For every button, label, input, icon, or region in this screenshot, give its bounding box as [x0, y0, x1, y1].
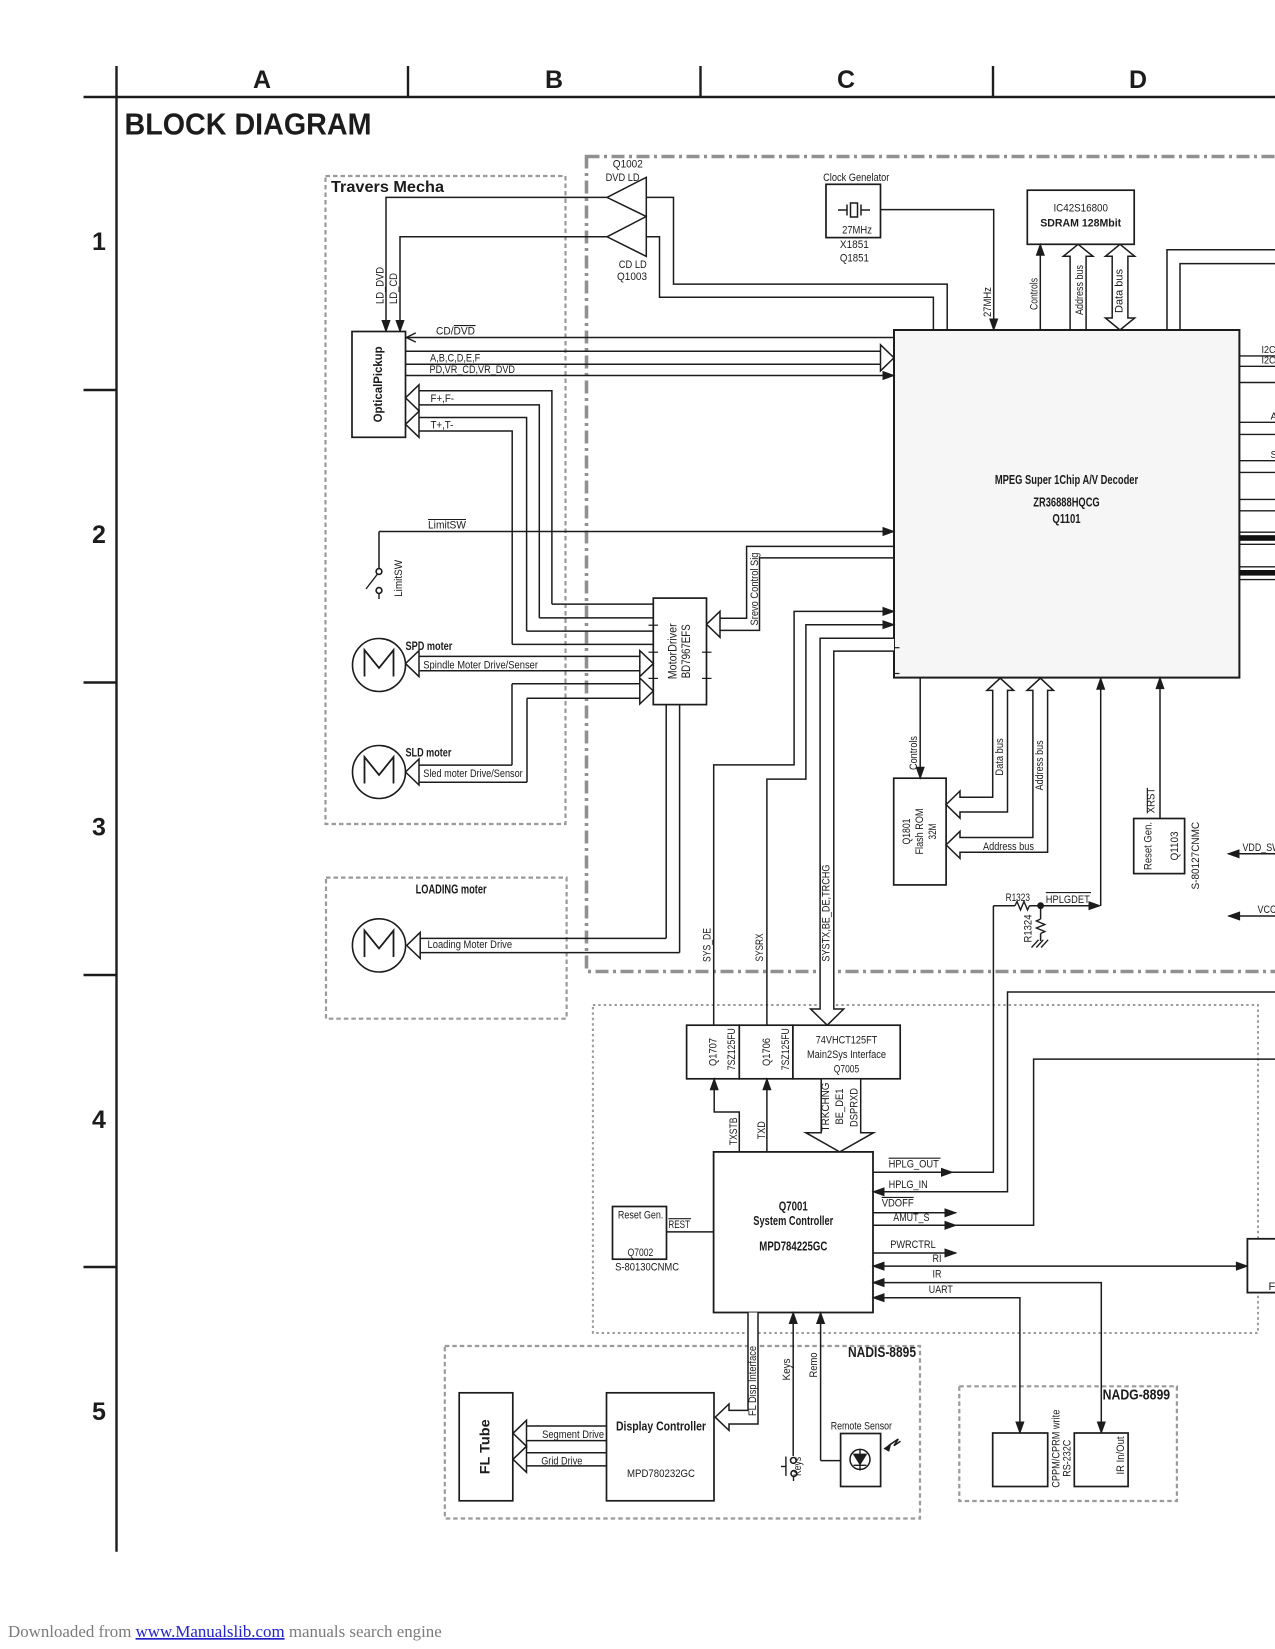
svg-text:SYSRX: SYSRX: [754, 933, 766, 961]
svg-text:UART: UART: [929, 1284, 953, 1296]
svg-text:OpticalPickup: OpticalPickup: [373, 346, 385, 422]
svg-text:Remote Sensor: Remote Sensor: [831, 1421, 892, 1433]
svg-text:RI: RI: [933, 1253, 942, 1265]
svg-text:Spindle Moter Drive/Senser: Spindle Moter Drive/Senser: [423, 660, 538, 672]
svg-text:74VHCT125FT: 74VHCT125FT: [816, 1035, 878, 1047]
svg-text:Reset Gen.: Reset Gen.: [618, 1209, 664, 1221]
svg-text:I2C: I2C: [1262, 355, 1275, 366]
svg-text:Q1003: Q1003: [617, 271, 647, 283]
svg-text:Reset Gen.: Reset Gen.: [1142, 822, 1154, 870]
svg-text:27MHz: 27MHz: [842, 225, 872, 237]
svg-text:IR In/Out: IR In/Out: [1115, 1437, 1127, 1475]
svg-text:MPD784225GC: MPD784225GC: [759, 1240, 827, 1254]
svg-text:S-80130CNMC: S-80130CNMC: [615, 1262, 679, 1274]
svg-text:Q7005: Q7005: [834, 1063, 859, 1075]
svg-text:MPD780232GC: MPD780232GC: [627, 1468, 695, 1480]
svg-text:BD7967EFS: BD7967EFS: [681, 624, 693, 678]
svg-text:Grid Drive: Grid Drive: [541, 1456, 582, 1468]
svg-text:ZR36888HQCG: ZR36888HQCG: [1033, 496, 1099, 510]
svg-text:F: F: [1269, 1281, 1275, 1293]
svg-text:SDRAM 128Mbit: SDRAM 128Mbit: [1040, 218, 1121, 230]
svg-text:Segment Drive: Segment Drive: [542, 1429, 604, 1441]
svg-text:IR: IR: [933, 1269, 942, 1281]
svg-text:Clock Genelator: Clock Genelator: [823, 172, 890, 184]
svg-text:32M: 32M: [927, 824, 939, 840]
svg-text:MPEG Super 1Chip A/V Decoder: MPEG Super 1Chip A/V Decoder: [995, 473, 1138, 487]
svg-text:BE_DE1: BE_DE1: [834, 1089, 846, 1125]
svg-text:Q1002: Q1002: [613, 159, 643, 171]
svg-text:HPLGDET: HPLGDET: [1046, 894, 1090, 906]
svg-text:Controls: Controls: [1029, 278, 1041, 310]
svg-text:LOADING moter: LOADING moter: [416, 883, 487, 897]
svg-text:TXSTB: TXSTB: [728, 1118, 740, 1146]
svg-text:Data bus: Data bus: [1113, 269, 1125, 313]
svg-text:LimitSW: LimitSW: [393, 559, 405, 597]
svg-text:A,B,C,D,E,F: A,B,C,D,E,F: [430, 352, 481, 364]
svg-text:AMUT_S: AMUT_S: [893, 1212, 929, 1224]
svg-text:SYSTX,BE_DE,TRCHG: SYSTX,BE_DE,TRCHG: [821, 865, 833, 962]
svg-text:System Controller: System Controller: [753, 1214, 833, 1228]
svg-text:Flash ROM: Flash ROM: [914, 809, 926, 855]
svg-text:4: 4: [92, 1106, 106, 1134]
svg-text:R1323: R1323: [1006, 892, 1030, 904]
svg-text:Travers Mecha: Travers Mecha: [331, 179, 444, 196]
svg-text:Q7001: Q7001: [779, 1200, 808, 1214]
svg-text:X1851: X1851: [840, 239, 869, 251]
svg-text:NADG-8899: NADG-8899: [1103, 1387, 1171, 1404]
svg-text:CD LD: CD LD: [619, 259, 647, 271]
svg-text:LD_DVD: LD_DVD: [374, 267, 386, 304]
svg-text:Loading Moter Drive: Loading Moter Drive: [428, 939, 513, 951]
svg-text:I2C: I2C: [1262, 345, 1275, 356]
svg-text:Q1801: Q1801: [901, 819, 913, 845]
svg-text:Keys: Keys: [781, 1358, 793, 1380]
svg-text:Q1706: Q1706: [761, 1038, 773, 1066]
svg-text:3: 3: [92, 813, 106, 841]
svg-text:HPLG_IN: HPLG_IN: [889, 1179, 928, 1191]
svg-text:7SZ125FU: 7SZ125FU: [780, 1028, 792, 1070]
svg-text:Q1851: Q1851: [840, 253, 869, 265]
svg-text:Keys: Keys: [792, 1457, 804, 1476]
svg-text:FL Tube: FL Tube: [477, 1419, 493, 1474]
svg-text:TXD: TXD: [756, 1121, 768, 1139]
svg-text:Data bus: Data bus: [994, 738, 1006, 776]
svg-text:CD/DVD: CD/DVD: [436, 326, 475, 338]
svg-text:7SZ125FU: 7SZ125FU: [726, 1028, 738, 1070]
svg-text:S-80127CNMC: S-80127CNMC: [1190, 822, 1202, 890]
svg-text:IC42S16800: IC42S16800: [1053, 203, 1108, 215]
svg-text:S: S: [1271, 450, 1275, 461]
svg-text:LimitSW: LimitSW: [428, 520, 467, 532]
svg-text:SYS_DE: SYS_DE: [702, 928, 714, 962]
svg-text:DVD LD: DVD LD: [606, 172, 640, 184]
svg-text:C: C: [837, 66, 855, 94]
svg-text:B: B: [545, 66, 563, 94]
svg-text:Q7002: Q7002: [628, 1247, 654, 1259]
svg-text:Q1103: Q1103: [1169, 832, 1181, 861]
svg-text:Q1101: Q1101: [1052, 512, 1080, 526]
svg-text:SLD moter: SLD moter: [406, 746, 452, 760]
svg-text:HPLG_OUT: HPLG_OUT: [889, 1158, 939, 1170]
svg-text:Address bus: Address bus: [1074, 265, 1086, 315]
svg-text:Q1707: Q1707: [707, 1038, 719, 1066]
svg-text:PD,VR_CD,VR_DVD: PD,VR_CD,VR_DVD: [430, 364, 516, 376]
svg-text:1: 1: [92, 228, 106, 256]
svg-text:NADIS-8895: NADIS-8895: [848, 1344, 916, 1361]
svg-text:F+,F-: F+,F-: [431, 393, 455, 405]
svg-text:5: 5: [92, 1398, 106, 1426]
svg-text:Srevo Control Sig: Srevo Control Sig: [749, 553, 761, 626]
svg-text:TRKCHNG: TRKCHNG: [820, 1083, 832, 1132]
svg-text:FL Disp Interface: FL Disp Interface: [747, 1346, 759, 1416]
svg-text:Address bus: Address bus: [983, 841, 1034, 853]
svg-text:T+,T-: T+,T-: [431, 420, 454, 432]
svg-text:Main2Sys Interface: Main2Sys Interface: [807, 1049, 886, 1061]
svg-text:Remo: Remo: [808, 1353, 820, 1378]
svg-text:Controls: Controls: [908, 736, 920, 770]
svg-text:Address bus: Address bus: [1034, 740, 1046, 790]
svg-text:MotorDriver: MotorDriver: [667, 623, 679, 679]
svg-text:D: D: [1129, 66, 1147, 94]
svg-text:27MHz: 27MHz: [982, 287, 994, 317]
svg-text:DSPRXD: DSPRXD: [849, 1088, 861, 1127]
svg-text:SPD moter: SPD moter: [406, 639, 453, 653]
svg-text:PWRCTRL: PWRCTRL: [890, 1239, 936, 1251]
svg-text:A: A: [1271, 412, 1275, 423]
svg-text:VDOFF: VDOFF: [882, 1198, 914, 1210]
svg-text:Downloaded from www.Manualslib: Downloaded from www.Manualslib.com manua…: [8, 1622, 442, 1641]
svg-text:VDD_SW: VDD_SW: [1243, 842, 1275, 854]
svg-text:A: A: [253, 66, 271, 94]
svg-text:LD_CD: LD_CD: [388, 273, 400, 304]
svg-text:BLOCK DIAGRAM: BLOCK DIAGRAM: [125, 107, 372, 142]
svg-text:RS-232C: RS-232C: [1062, 1440, 1074, 1477]
svg-text:2: 2: [92, 521, 106, 549]
svg-text:R1324: R1324: [1023, 915, 1035, 943]
svg-text:REST: REST: [668, 1219, 690, 1231]
svg-text:VCC_: VCC_: [1258, 904, 1275, 916]
svg-text:Display Controller: Display Controller: [616, 1420, 706, 1434]
svg-text:Sled moter Drive/Sensor: Sled moter Drive/Sensor: [423, 768, 523, 780]
